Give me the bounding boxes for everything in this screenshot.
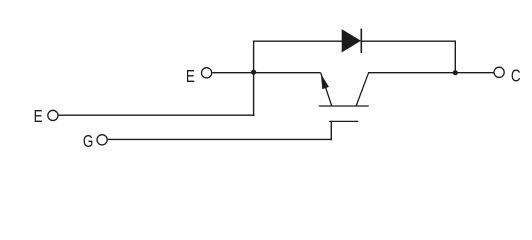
wire vertical emitter-node (x=253.6)	[253, 41, 255, 116]
wire gate vertical stub	[330, 121, 332, 140]
IGBT Q1 body bar	[319, 105, 369, 107]
terminal C (collector, right) circle	[494, 67, 504, 77]
terminal E1 (emitter, lower-left) circle	[48, 110, 58, 120]
diode D1 anti-parallel: anode triangle	[342, 30, 360, 52]
junction dot node E	[251, 70, 256, 75]
svg-text:G: G	[83, 132, 94, 151]
IGBT Q1 gate bar	[329, 120, 358, 122]
wire vertical collector-node drop (x=455.3)	[454, 41, 456, 74]
terminal E2 (emitter sense, upper) circle	[202, 68, 212, 78]
wire E2 to IGBT emitter corner	[212, 72, 320, 74]
wire top rail left (to diode anode)	[253, 40, 343, 42]
wire G to gate stub	[108, 138, 332, 140]
wire E1 to node vertical	[59, 114, 255, 116]
IGBT Q1 emitter diagonal	[321, 73, 332, 106]
wire collector to terminal C	[368, 72, 494, 74]
wire top rail right (diode cathode to collector node)	[361, 40, 456, 42]
svg-text:C: C	[511, 67, 521, 86]
IGBT Q1 emitter arrow head	[321, 75, 328, 89]
diode D1 cathode bar	[360, 29, 362, 54]
junction dot node C	[453, 70, 458, 75]
terminal G (gate, lower-left) circle	[97, 135, 107, 145]
svg-text:E: E	[186, 67, 195, 86]
IGBT Q1 collector diagonal	[356, 73, 369, 106]
svg-text:E: E	[34, 107, 43, 126]
